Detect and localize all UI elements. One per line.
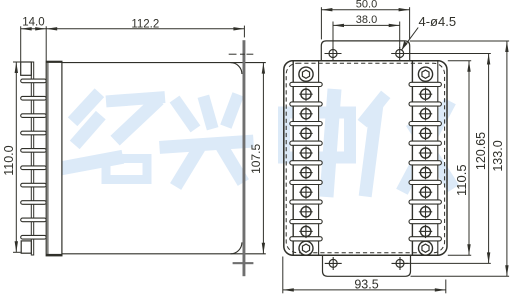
panel top centerline dashes <box>229 53 254 55</box>
仪 <box>366 99 450 190</box>
fins x10 <box>21 79 47 239</box>
watermark 绍兴中仪 <box>63 96 450 190</box>
top bracket <box>321 41 409 61</box>
dimension 93.5 <box>283 257 446 294</box>
中 <box>284 96 350 190</box>
bottom tab <box>21 241 31 253</box>
case outline <box>284 61 447 256</box>
bottom bracket <box>323 255 411 276</box>
svg-text:110.5: 110.5 <box>454 164 469 196</box>
svg-text:110.0: 110.0 <box>2 145 16 175</box>
svg-text:133.0: 133.0 <box>491 140 505 171</box>
rear band <box>46 61 62 256</box>
dimension 133.0 <box>410 41 509 276</box>
svg-text:50.0: 50.0 <box>356 0 377 10</box>
dimension 107.5 <box>262 63 264 254</box>
hidden bezel dashed <box>286 63 444 253</box>
dimension 14.0 <box>21 26 47 62</box>
dimension 120.65 <box>405 54 491 264</box>
dimension 112.2 <box>46 26 244 38</box>
panel thick line <box>243 40 246 276</box>
svg-text:112.2: 112.2 <box>131 18 159 30</box>
svg-text:38.0: 38.0 <box>356 14 377 26</box>
绍 <box>63 98 159 180</box>
screws right <box>418 67 432 255</box>
screws left <box>299 67 313 255</box>
spine plate <box>31 62 33 255</box>
bottom-right fillet <box>231 242 242 253</box>
body bottom edge + extension <box>62 253 266 255</box>
dimension 110.0 <box>13 62 21 252</box>
svg-text:14.0: 14.0 <box>22 17 44 29</box>
dimension 110.5 <box>448 61 471 256</box>
dimension 38.0 <box>333 22 400 49</box>
bottom bracket holes <box>325 257 409 270</box>
svg-text:107.5: 107.5 <box>249 144 263 174</box>
svg-text:93.5: 93.5 <box>354 278 378 292</box>
top-right fillet <box>231 63 242 74</box>
top tab <box>21 62 32 75</box>
panel bottom cross bar <box>233 262 254 264</box>
svg-text:4-ø4.5: 4-ø4.5 <box>419 14 457 29</box>
strip fills <box>290 61 322 256</box>
svg-text:120.65: 120.65 <box>474 132 488 170</box>
top bracket holes <box>325 47 409 60</box>
dimension 50.0 <box>321 7 409 39</box>
兴 <box>166 100 247 181</box>
body top edge + 107.5 extension <box>62 62 266 64</box>
label 4-ø4.5 with leader <box>402 28 418 50</box>
